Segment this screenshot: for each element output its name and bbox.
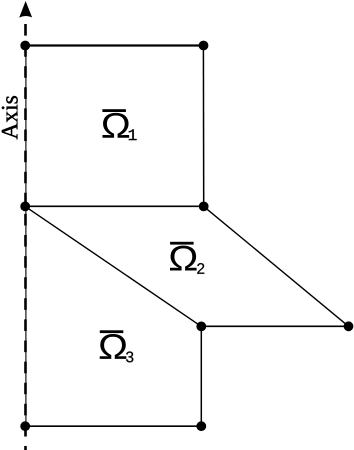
wire: diagonal D-F: [204, 206, 349, 326]
axis label "Axis" (rotated): [2, 96, 18, 139]
node A (top-left): [20, 41, 30, 51]
wire: diagonal C-E: [25, 206, 201, 326]
label Omega-bar 1: Omega glyph: [103, 113, 130, 138]
wire: right edge of Omega1 B-D: [202, 46, 204, 207]
wire: bottom edge G-H: [25, 425, 201, 427]
label Omega-bar 2: overline: [170, 242, 194, 245]
label Omega-bar 2: subscript 2: [197, 263, 204, 274]
axis arrowhead: [19, 1, 32, 18]
node F (far right): [344, 321, 354, 331]
label Omega-bar 3: overline: [100, 330, 124, 333]
wire: horizontal edge E-F: [201, 325, 348, 327]
label Omega-bar 1: subscript 1: [129, 129, 137, 140]
node D (mid-right): [199, 202, 209, 212]
node B (top-right): [199, 41, 209, 51]
label Omega-bar 3: Omega glyph: [100, 334, 127, 359]
node E (inner corner): [196, 322, 206, 332]
wire: left edge of Omega1 (thin, under axis): [25, 46, 27, 207]
node C (mid-left): [20, 202, 30, 212]
axis of symmetry (dashed vertical line): [24, 24, 27, 450]
wire: middle horizontal edge C-D: [25, 205, 204, 207]
label Omega-bar 2: Omega glyph: [170, 246, 197, 271]
node G (bottom-left): [20, 421, 30, 431]
wire: vertical edge E-H: [200, 326, 202, 426]
wire: top edge A-B: [25, 44, 203, 46]
node H (bottom-mid): [196, 421, 206, 431]
label Omega-bar 1: overline: [102, 109, 126, 112]
wire: left edge of Omega3 (thin, under axis): [25, 206, 27, 426]
label Omega-bar 3: subscript 3: [126, 352, 133, 363]
